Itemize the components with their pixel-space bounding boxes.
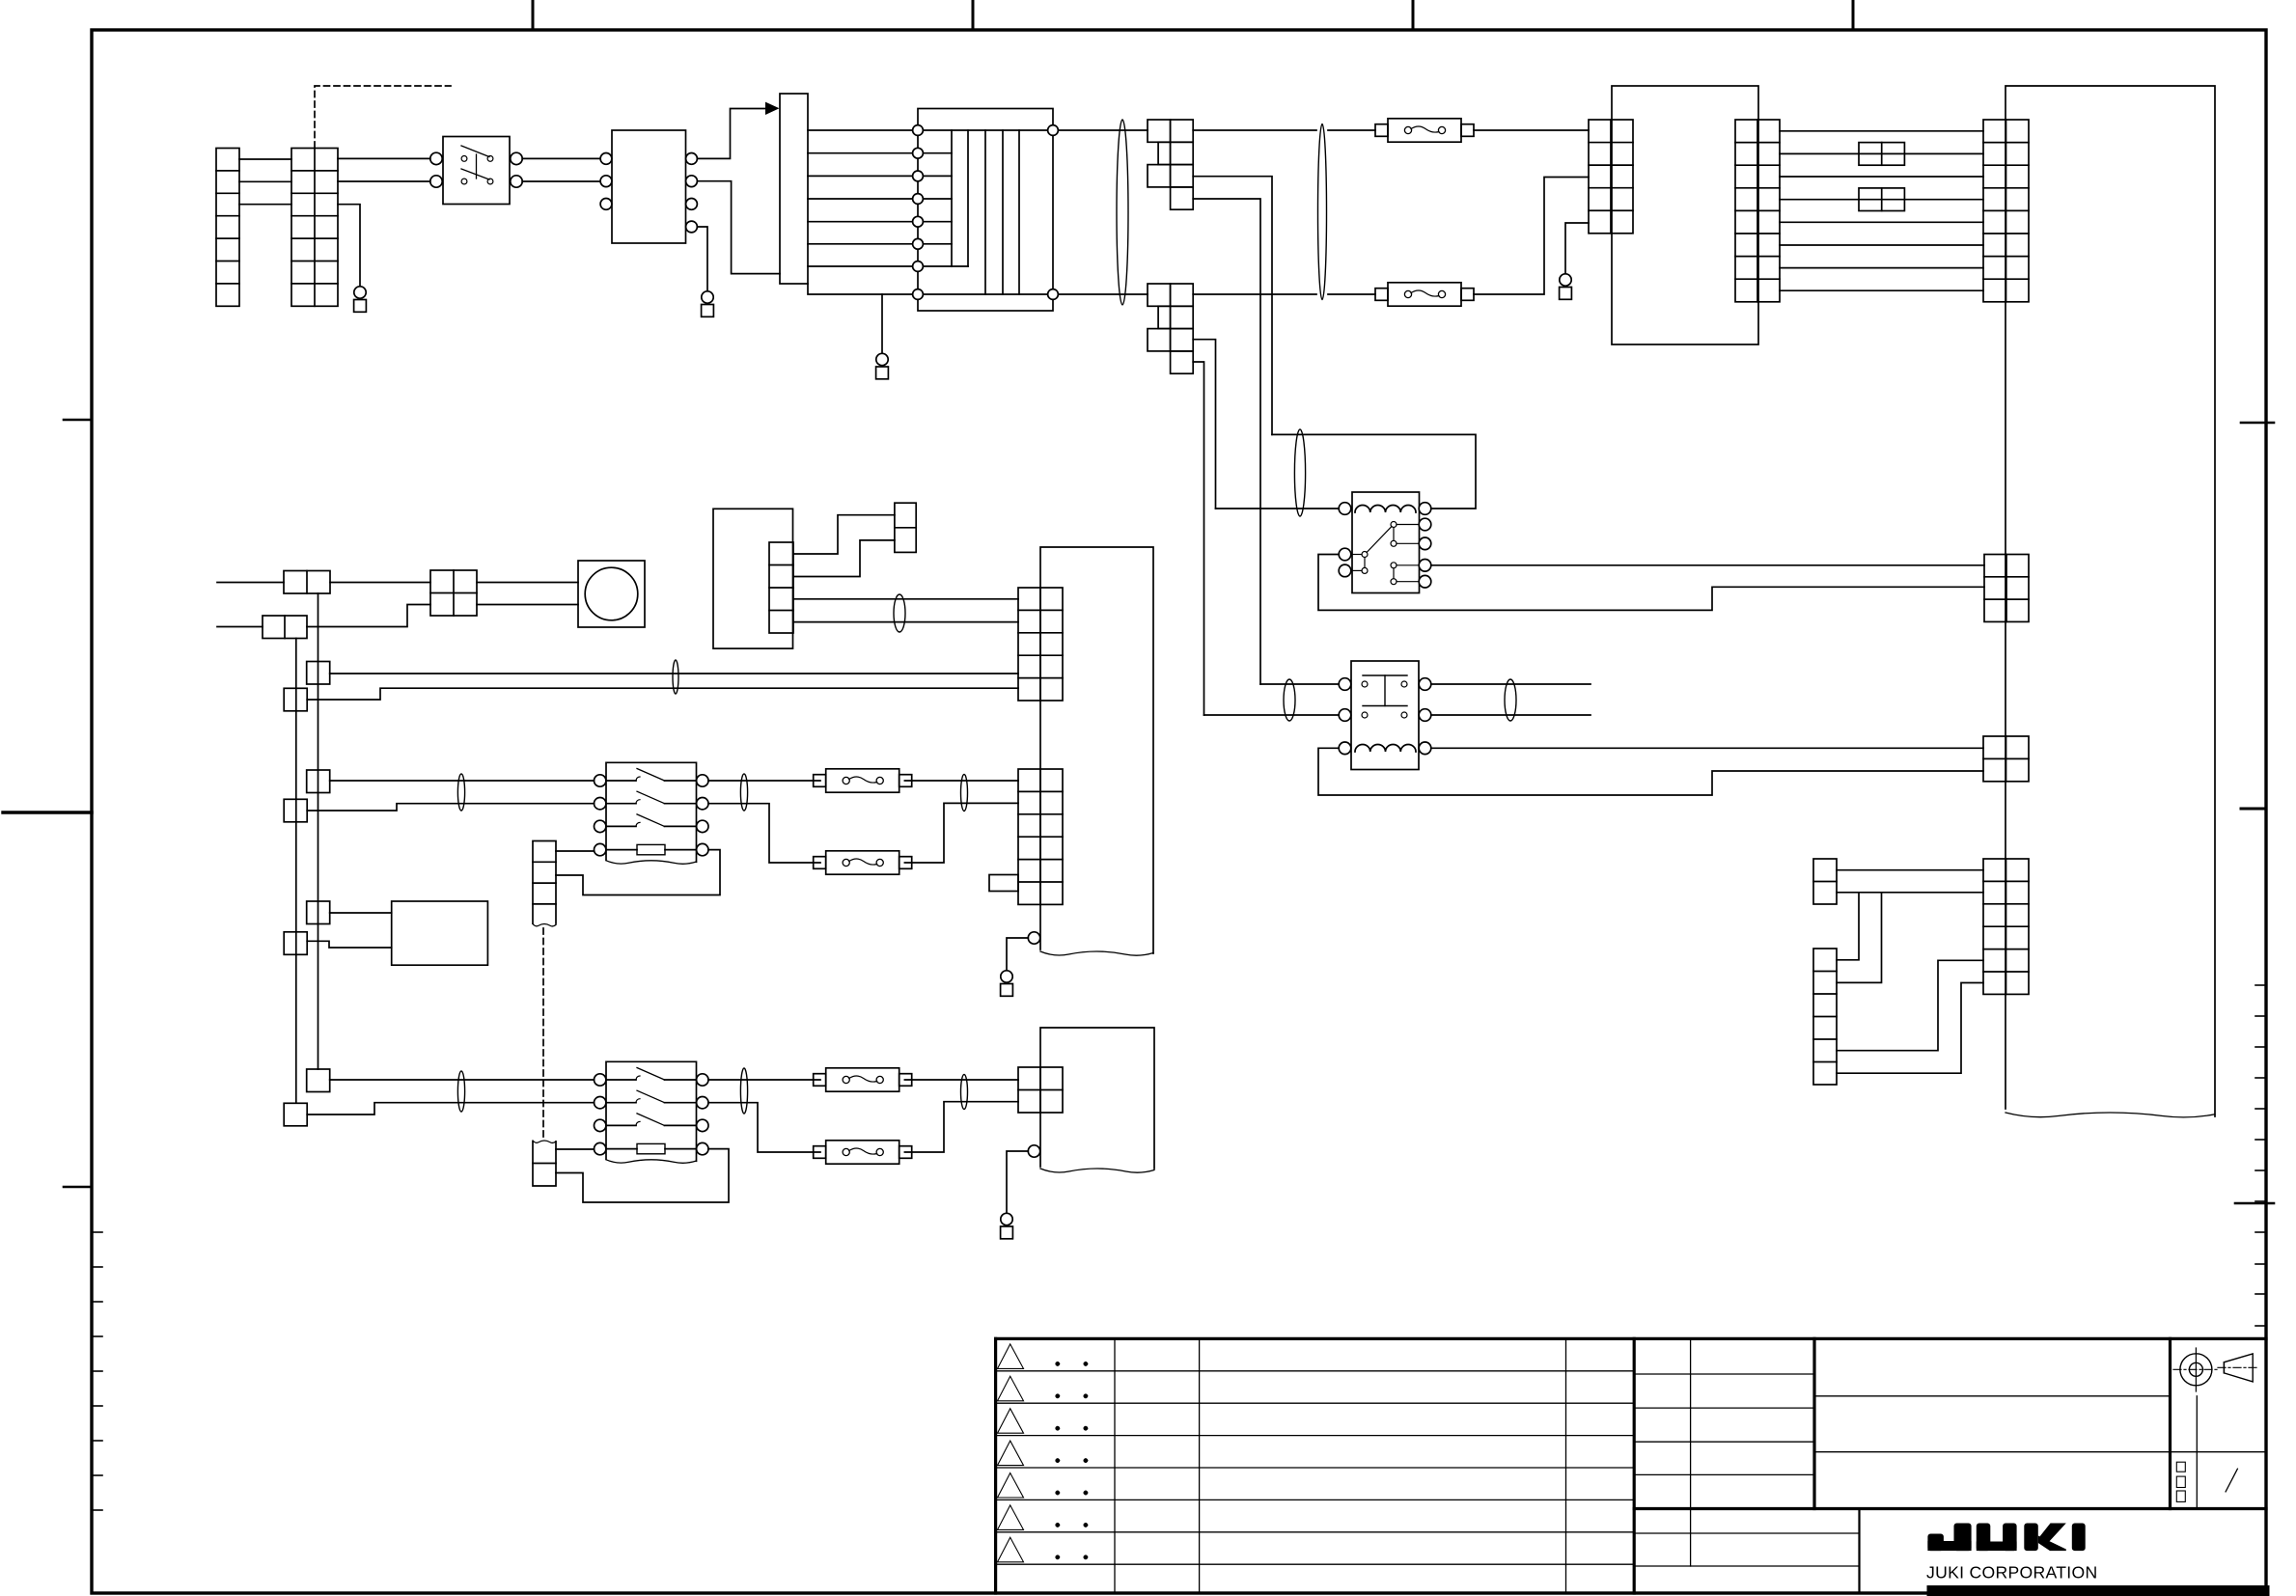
- wire CN0-CN2: [307, 605, 430, 627]
- right margin centre mark: [2241, 808, 2266, 811]
- ground under NF1: [702, 291, 713, 303]
- RY2 pin coilR: [1419, 742, 1431, 755]
- noise filter NF1 box: [612, 130, 686, 243]
- wire branch to CN17 row1: [1837, 893, 1859, 960]
- wire A4 to SA2 row1: [330, 1079, 595, 1081]
- circuit breaker FB: [814, 857, 826, 869]
- connector pair CN0: [263, 616, 307, 639]
- connector pair CN4 (lower): [1148, 284, 1171, 306]
- CB2 shield pin: [1028, 1145, 1039, 1157]
- wire CN5 row4: [793, 621, 1018, 623]
- T1 pin L5: [913, 216, 924, 227]
- wire CN1-CN2: [330, 582, 430, 584]
- RY1 pin no1: [1419, 518, 1431, 531]
- wire branch to CN17 row2: [1837, 893, 1882, 983]
- ground under CB2: [1001, 1213, 1012, 1225]
- connector CN8 plug: [533, 841, 556, 924]
- tap box B2: [284, 799, 307, 822]
- connector CN5 (panel): [769, 542, 793, 633]
- top fold mark 3: [1412, 1, 1415, 30]
- connector CN10 (PSU in): [1589, 120, 1633, 234]
- wire NF1 to rectifier bottom: [697, 181, 780, 274]
- wire RY2 R2 stub: [1431, 714, 1591, 716]
- cable marker E1: [1117, 120, 1128, 305]
- CB2 torn edge: [1040, 1169, 1154, 1172]
- wire PSU out 2: [1780, 152, 1983, 154]
- SW1 terminal R2: [511, 176, 522, 187]
- wire PSU out 7: [1780, 267, 1983, 269]
- NF1 pin R1: [686, 153, 698, 165]
- wire rectifier-T1 tap2: [808, 152, 913, 154]
- wire B2 to SA1 row2: [307, 804, 594, 811]
- top fold mark 1: [532, 1, 535, 30]
- SW1 mechanical link: [476, 154, 478, 179]
- wire CN2-motor 1: [477, 582, 578, 584]
- tap box B3: [284, 932, 307, 955]
- wire FD to CN19 row2: [904, 1102, 1018, 1152]
- NF1 pin L3: [600, 199, 612, 210]
- wire CN5 row3: [793, 598, 1018, 600]
- tap box B1: [284, 688, 307, 711]
- scale slash: [2226, 1469, 2237, 1492]
- wire PSU out 1: [1780, 130, 1983, 132]
- circuit breaker FD: [814, 1146, 826, 1159]
- wire RY1 nc to CN13: [1431, 564, 1984, 566]
- revision triangles: [998, 1344, 1024, 1369]
- connector CN12 (main box in): [1983, 120, 2029, 302]
- JUKI logo: [1927, 1524, 2085, 1552]
- wire RY1 coil left: [1216, 508, 1340, 509]
- revision table grid: [996, 1370, 1635, 1372]
- rectifier block: [780, 94, 808, 284]
- SW1 pole2 blade: [461, 169, 489, 179]
- RY1 pin coilR: [1419, 503, 1431, 515]
- left margin tick lower: [64, 1186, 92, 1189]
- wire E2-F2: [1328, 293, 1375, 295]
- connector CN13: [1984, 555, 2029, 622]
- power unit PSU box: [1612, 86, 1758, 344]
- wire mains to CN1: [217, 582, 284, 584]
- wire RY1 com loop: [1318, 555, 1984, 611]
- wire rectifier-T1 tap8: [808, 284, 913, 294]
- RY2 pin L2: [1339, 709, 1351, 722]
- dashed leader from TB2: [315, 86, 451, 148]
- relay RY2 box: [1351, 661, 1419, 770]
- tap box A3: [307, 901, 330, 924]
- cable marker E9: [740, 774, 747, 811]
- ground under TB2: [354, 287, 366, 298]
- CN8 torn edge: [533, 924, 556, 926]
- cable marker E10: [961, 775, 968, 812]
- tap box B4: [284, 1103, 307, 1126]
- wire RY1 coil loop: [1272, 434, 1476, 509]
- svg-text:JUKI CORPORATION: JUKI CORPORATION: [1926, 1563, 2098, 1582]
- bus wire vertical A: [318, 593, 319, 1069]
- top fold mark 4: [1852, 1, 1855, 30]
- wire CN4 row3 drop: [1193, 340, 1215, 509]
- CB2 drain wire: [1007, 1151, 1028, 1214]
- connector CN19: [1018, 1067, 1063, 1113]
- connector CN18 plug: [533, 1142, 556, 1186]
- wire TB2-SW1 line2: [338, 180, 430, 182]
- wire CN8 row2 loop: [556, 850, 720, 895]
- connector CN7: [1018, 588, 1063, 701]
- wire CN8 row1 to SA1 resistor: [556, 850, 595, 852]
- machine switch assembly SA1: [606, 762, 697, 862]
- wire FA to CN9: [904, 780, 1018, 782]
- connector CN17 plug: [1813, 949, 1837, 1085]
- CB1 torn edge: [1040, 951, 1153, 955]
- approval grid: [1634, 1373, 1814, 1375]
- wire SW1-NF1 line2: [522, 180, 600, 182]
- wire RY2 L2: [1204, 714, 1340, 716]
- wire NF1 ground lead: [697, 227, 707, 291]
- left margin centre mark: [3, 811, 92, 813]
- scale kanji: [2176, 1462, 2185, 1472]
- wire RY2 coil right: [1431, 747, 1983, 749]
- wire rectifier-T1 tap7: [808, 265, 913, 267]
- connector pair CN3 (upper): [1148, 120, 1171, 142]
- connector CN11 (PSU out): [1735, 120, 1780, 302]
- RY1 pin comA: [1339, 548, 1351, 561]
- wire SA2 row1 to FC: [708, 1079, 820, 1081]
- T1 pin L2: [913, 148, 924, 158]
- cable marker E7: [673, 660, 678, 694]
- connector CN15: [1983, 859, 2029, 994]
- wire rectifier-T1 tap3: [808, 175, 913, 177]
- fuse block FB1: [1859, 143, 1904, 166]
- tap box A4: [307, 1069, 330, 1092]
- ground at PSU: [1560, 274, 1571, 286]
- wire SA2 row2 to FD: [708, 1103, 820, 1152]
- RY1 inner contacts: [1362, 552, 1368, 558]
- wire TB2-SW1 line1: [338, 157, 430, 159]
- wire TB1-TB2 row3: [239, 204, 291, 206]
- machine head box ML torn edge: [2006, 1113, 2215, 1117]
- wire rectifier-T1 tap4: [808, 198, 913, 200]
- SW1 pole2 contacts: [461, 179, 467, 184]
- relay RY1 box: [1352, 492, 1420, 593]
- motor M: [585, 567, 638, 620]
- control pcb box CB2: [1040, 1028, 1154, 1169]
- NF1 pin L2: [600, 176, 612, 187]
- wire FC to CN19: [904, 1079, 1018, 1081]
- revision date dots: [1056, 1362, 1060, 1365]
- transformer T1 box: [918, 109, 1053, 312]
- connector pair CN1: [284, 571, 330, 594]
- wire mains to CN0: [217, 626, 263, 628]
- cable marker E11: [457, 1071, 464, 1112]
- RY1 pin comB: [1339, 564, 1351, 577]
- wire B1 to CN7 row5: [307, 688, 1018, 700]
- connector CN14: [1983, 736, 2029, 782]
- wire A3 to AUX: [330, 912, 392, 914]
- tap box A1: [307, 662, 330, 685]
- NF1 pin R3: [686, 199, 698, 210]
- wire A1 to CN7 row4: [330, 673, 1018, 674]
- panel box PNL: [713, 509, 793, 648]
- RY1 pin nc2: [1419, 575, 1431, 588]
- control pcb box CB1: [1040, 547, 1153, 953]
- T1 pin L8: [913, 289, 924, 300]
- flow arrow: [765, 102, 780, 115]
- wire CN5 row2: [793, 540, 895, 577]
- SW1 pole1 blade: [461, 146, 489, 157]
- wire PSU out 5: [1780, 221, 1983, 223]
- RY2 pin R2: [1419, 709, 1431, 722]
- RY1 pin coilL: [1339, 503, 1351, 515]
- T1 pin L3: [913, 171, 924, 181]
- aux box AUX: [392, 901, 488, 965]
- wire CN16 row2 bus: [1837, 892, 1983, 894]
- wire rectifier-T1 tap1: [808, 129, 913, 131]
- cable continuation dashed: [542, 928, 544, 1139]
- circuit breaker F2: [1375, 289, 1388, 301]
- wire PSU out 8: [1780, 289, 1983, 291]
- wire SW1-NF1 line1: [522, 157, 600, 159]
- NF1 pin R4: [686, 221, 698, 233]
- wire RY2 L1: [1260, 683, 1339, 685]
- wire CN17 row6: [1837, 983, 1983, 1074]
- right edge ruler graduations: [2255, 984, 2266, 986]
- wire PSU out 3: [1780, 176, 1983, 178]
- terminal strip TB2: [291, 149, 338, 307]
- wire PSU out 6: [1780, 244, 1983, 246]
- title block heavy frame: [996, 1337, 2266, 1340]
- RY2 pin R1: [1419, 678, 1431, 691]
- wire F1-CN10: [1474, 129, 1589, 131]
- connector CN16 plug: [1813, 859, 1837, 904]
- wire CN18 row1 to SA2 resistor: [556, 1148, 595, 1150]
- wire CN3 row4 drop: [1193, 199, 1260, 684]
- cable marker E13: [961, 1075, 968, 1110]
- RY2 contact symbol: [1362, 681, 1368, 687]
- wire CN3 row3 drop: [1193, 177, 1272, 435]
- cable marker E8: [457, 774, 464, 811]
- cable marker E3: [1294, 429, 1305, 516]
- RY1 pin nc1: [1419, 560, 1431, 572]
- power switch SW1 box: [443, 137, 510, 205]
- RY2 pin coilL: [1339, 742, 1351, 755]
- wire CN3 through: [1193, 129, 1316, 131]
- CN9 latch tab: [989, 875, 1018, 892]
- connector pair CN2: [430, 570, 477, 616]
- SW1 terminal L1: [430, 152, 442, 164]
- circuit breaker F1: [1375, 124, 1388, 137]
- RY1 pin no2: [1419, 537, 1431, 550]
- top fold mark 2: [972, 1, 975, 30]
- machine head box ML: [2006, 86, 2215, 1116]
- tap box A2: [307, 770, 330, 793]
- RY2 pin L1: [1339, 678, 1351, 691]
- SW1 terminal R1: [511, 152, 522, 164]
- T1 windings: [918, 129, 1053, 131]
- CB1 shield pin: [1028, 932, 1039, 944]
- T1 shield drain: [881, 294, 883, 354]
- T1 pin R1: [1048, 125, 1059, 136]
- motor M box: [578, 561, 645, 627]
- SW1 terminal L2: [430, 176, 442, 187]
- wire A2 to SA1 row1: [330, 780, 595, 782]
- terminal strip TB1: [216, 149, 239, 307]
- cable marker E6: [894, 594, 905, 632]
- NF1 pin R2: [686, 176, 698, 187]
- cable marker E5: [1505, 679, 1516, 721]
- cable marker E4: [1284, 679, 1295, 721]
- wire PSU out 4: [1780, 199, 1983, 201]
- bus wire vertical B: [295, 639, 297, 1104]
- NF1 pin L1: [600, 153, 612, 165]
- left edge ruler graduations: [92, 1231, 102, 1233]
- wire B4 to SA2 row2: [307, 1103, 594, 1114]
- T1 pin L7: [913, 261, 924, 272]
- cable marker E2: [1318, 124, 1327, 300]
- wire E2-F1: [1328, 129, 1375, 131]
- machine switch assembly SA2: [606, 1061, 697, 1161]
- CN18 torn edge: [533, 1141, 556, 1142]
- RY1 coil: [1355, 506, 1416, 512]
- CB1 drain wire: [1007, 938, 1028, 971]
- wire TB2 to ground tap: [338, 205, 360, 287]
- wire CN17 row5: [1837, 960, 1983, 1050]
- T1 pin L4: [913, 194, 924, 205]
- wire rectifier-T1 tap5: [808, 221, 913, 223]
- wire RY2 coil left loop: [1318, 748, 1983, 795]
- RY2 coil: [1355, 745, 1416, 752]
- circuit breaker FA: [814, 775, 826, 787]
- wire TB1-TB2 row2: [239, 180, 291, 182]
- wire CN16-CN15 row1: [1837, 869, 1983, 871]
- projection symbol: [2180, 1354, 2212, 1386]
- T1 pin L1: [913, 125, 924, 136]
- wire CN2-motor 2: [477, 604, 578, 606]
- T1 pin R2: [1048, 289, 1059, 300]
- T1 pin L6: [913, 238, 924, 249]
- left margin tick upper: [64, 419, 92, 422]
- circuit breaker FC: [814, 1074, 826, 1087]
- wire SA1 row2 to FB: [708, 804, 820, 863]
- wire FB to CN9 row2: [904, 803, 1018, 863]
- connector CN9: [1018, 769, 1063, 904]
- wire T1-CN3 lower: [1058, 293, 1148, 295]
- right margin tick upper: [2241, 422, 2274, 425]
- cable marker E12: [740, 1068, 747, 1114]
- ground under CB1: [1001, 971, 1012, 982]
- wire F2 riser: [1474, 178, 1589, 295]
- ground under T1: [876, 353, 888, 365]
- wire B3 to AUX: [307, 941, 392, 948]
- wire CN4 through: [1193, 293, 1316, 295]
- wire RY2 R1 stub: [1431, 683, 1591, 685]
- wire TB1-TB2 row1: [239, 158, 291, 160]
- wire CN4 row4 drop: [1193, 362, 1203, 715]
- SW1 pole1 contacts: [461, 156, 467, 162]
- wire CN18 row2 loop: [556, 1149, 729, 1202]
- wire NF1 to rectifier top: [697, 109, 765, 159]
- wire rectifier-T1 tap6: [808, 243, 913, 245]
- connector CN6 plug: [895, 503, 916, 552]
- wire CN5 row1: [793, 515, 895, 554]
- fuse block FB2: [1859, 188, 1904, 211]
- PSU ground lead: [1565, 223, 1589, 274]
- wire SA1 row1 to FA: [708, 780, 820, 782]
- wire T1-CN3 upper: [1058, 129, 1148, 131]
- title block lower bar: [1927, 1585, 2270, 1596]
- right margin tick lower: [2235, 1202, 2274, 1205]
